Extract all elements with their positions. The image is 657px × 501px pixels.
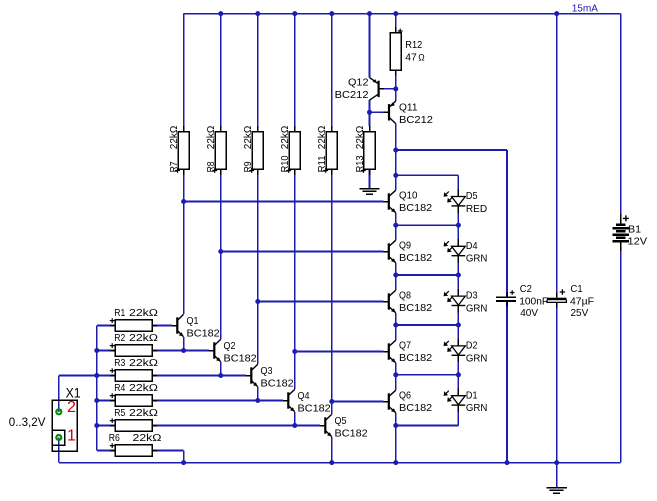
wire LED column seg 0 <box>457 175 459 189</box>
svg-text:D4: D4 <box>466 240 478 252</box>
wire Q11 collector to C2 <box>396 149 507 151</box>
wire LED row 3 <box>396 324 459 326</box>
svg-text:GRN: GRN <box>466 402 488 414</box>
junction input bus R4 <box>94 398 99 403</box>
transistor Q6 <box>384 390 433 415</box>
resistor R2 <box>110 332 158 356</box>
resistor R3 <box>110 357 158 381</box>
wire column R8 / Q2 collector <box>220 14 222 340</box>
wire battery column right <box>620 14 622 214</box>
junction Q11 base node <box>367 110 372 115</box>
LED D1 <box>444 388 488 414</box>
wire bus to R2 <box>97 350 115 352</box>
svg-text:D1: D1 <box>466 389 478 401</box>
svg-text:Q8: Q8 <box>399 290 411 302</box>
wire C1 column upper <box>556 14 558 298</box>
svg-text:Q11: Q11 <box>399 101 418 113</box>
resistor R7 <box>168 126 189 175</box>
svg-text:R6: R6 <box>109 432 120 444</box>
wire chain Q10 emitter to Q9 collector <box>395 213 397 240</box>
svg-text:BC182: BC182 <box>399 302 432 314</box>
junction chain row 2 <box>393 273 398 278</box>
wire Q11 base <box>370 111 384 113</box>
svg-text:Q5: Q5 <box>335 415 347 427</box>
junction bottom bus Q6 emitter <box>393 460 398 465</box>
svg-text:R8: R8 <box>205 161 217 172</box>
svg-text:1: 1 <box>67 427 76 444</box>
LED D3 <box>444 289 488 315</box>
svg-text:Q6: Q6 <box>399 390 411 402</box>
svg-text:Q2: Q2 <box>224 340 236 352</box>
junction input bus R2 <box>94 348 99 353</box>
wire chain Q7 emitter to Q6 collector <box>395 363 397 390</box>
wire bus to R1 <box>97 325 115 327</box>
junction top bus col 5 <box>329 11 334 16</box>
junction top bus R12 <box>393 11 398 16</box>
svg-text:22kΩ: 22kΩ <box>279 126 291 150</box>
wire LED row 5 <box>396 425 459 427</box>
transistor Q11 <box>384 101 433 126</box>
junction top bus col 3 <box>255 11 260 16</box>
transistor Q12 <box>335 77 384 101</box>
svg-text:Q10: Q10 <box>399 190 418 202</box>
svg-text:R11: R11 <box>316 155 328 172</box>
junction Q7 base takeoff <box>292 349 297 354</box>
wire LED row 0 <box>396 174 459 176</box>
junction LED column row 4 <box>456 372 461 377</box>
wire Q3 emitter <box>257 387 259 401</box>
transistor Q7 <box>384 340 433 365</box>
transistor Q4 <box>283 389 331 414</box>
svg-text:B1: B1 <box>628 223 641 235</box>
svg-text:BC182: BC182 <box>399 252 432 264</box>
wire Q6 base <box>332 401 384 403</box>
wire bus to R3 <box>97 375 115 377</box>
wire LED row 4 <box>396 374 459 376</box>
wire ground stem bottom <box>556 463 558 488</box>
junction bottom bus R6 <box>181 460 186 465</box>
svg-text:Q9: Q9 <box>399 240 411 252</box>
junction top bus col 4 <box>292 11 297 16</box>
wire top supply bus <box>184 13 621 15</box>
transistor Q5 <box>320 414 368 439</box>
svg-text:GRN: GRN <box>466 352 488 364</box>
junction chain row 5 <box>393 423 398 428</box>
svg-text:Q1: Q1 <box>187 315 199 327</box>
junction Q9 base takeoff <box>218 249 223 254</box>
svg-text:BC182: BC182 <box>399 352 432 364</box>
svg-text:BC182: BC182 <box>399 202 432 214</box>
wire R3 to Q3 base <box>152 375 246 377</box>
junction input bus R3 <box>94 373 99 378</box>
wire chain Q9 emitter to Q8 collector <box>395 263 397 290</box>
svg-text:22kΩ: 22kΩ <box>129 357 158 369</box>
junction Q11 collector to C2 <box>393 148 398 153</box>
wire LED row 2 <box>396 274 459 276</box>
transistor Q1 <box>172 314 220 339</box>
svg-text:R13: R13 <box>354 155 366 172</box>
wire column R11 / Q5 collector <box>331 14 333 415</box>
junction Q4 emitter <box>292 423 297 428</box>
svg-text:BC212: BC212 <box>335 89 369 101</box>
LED D4 <box>444 239 488 265</box>
wire X1 pin1 to ground bus <box>58 438 60 463</box>
wire bus to R5 <box>97 425 115 427</box>
svg-text:22kΩ: 22kΩ <box>129 307 158 319</box>
svg-text:BC182: BC182 <box>335 428 368 440</box>
junction top bus Q12 emitter <box>367 11 372 16</box>
svg-text:22kΩ: 22kΩ <box>129 407 158 419</box>
resistor R4 <box>110 382 158 406</box>
capacitor C1 <box>547 283 594 319</box>
wire C2 column upper <box>506 150 508 297</box>
svg-text:22kΩ: 22kΩ <box>129 382 158 394</box>
junction LED column row 3 <box>456 323 461 328</box>
wire bottom ground bus <box>59 462 621 464</box>
svg-text:BC182: BC182 <box>224 353 257 365</box>
junction top bus col 2 <box>218 11 223 16</box>
svg-text:R2: R2 <box>114 332 125 344</box>
svg-text:15mA: 15mA <box>572 3 598 15</box>
svg-text:22kΩ: 22kΩ <box>129 332 158 344</box>
wire Q6 emitter to ground bus <box>395 413 397 463</box>
junction Q2 emitter <box>218 373 223 378</box>
wire chain Q8 emitter to Q7 collector <box>395 313 397 340</box>
svg-text:BC182: BC182 <box>298 403 331 415</box>
transistor Q8 <box>384 290 433 315</box>
wire column R9 / Q3 collector <box>257 14 259 365</box>
svg-text:GRN: GRN <box>466 253 488 265</box>
junction LED column row 2 <box>456 273 461 278</box>
wire Q2 emitter <box>220 362 222 376</box>
svg-text:GRN: GRN <box>466 303 488 315</box>
wire C2 column lower <box>506 301 508 463</box>
wire Q4 emitter <box>294 412 296 426</box>
svg-text:40V: 40V <box>520 307 538 319</box>
ground below R13 <box>359 189 379 195</box>
junction Q3 emitter <box>255 398 260 403</box>
LED D2 <box>444 339 488 365</box>
resistor R10 <box>279 126 300 175</box>
svg-text:C2: C2 <box>520 283 532 295</box>
wire C1 column lower <box>556 302 558 462</box>
connector X1 <box>52 384 80 451</box>
svg-text:Ω: Ω <box>418 53 425 63</box>
wire Q8 base <box>258 301 384 303</box>
wire LED column seg 4 <box>457 375 459 389</box>
svg-text:R9: R9 <box>242 161 254 172</box>
junction bottom bus Q5 emitter <box>329 460 334 465</box>
svg-text:Q7: Q7 <box>399 340 411 352</box>
svg-text:22kΩ: 22kΩ <box>133 432 162 444</box>
svg-text:C1: C1 <box>571 283 583 295</box>
svg-text:47: 47 <box>405 52 417 64</box>
wire Q12 base to R12 bottom <box>384 88 396 90</box>
junction chain row 0 <box>393 173 398 178</box>
transistor Q2 <box>209 339 257 364</box>
wire LED column seg 2 <box>457 275 459 289</box>
resistor R5 <box>110 407 158 431</box>
wire LED column seg 1 <box>457 225 459 239</box>
wire Q5 emitter <box>331 437 333 463</box>
resistor R1 <box>110 307 158 331</box>
svg-text:47µF: 47µF <box>570 296 594 308</box>
svg-text:R12: R12 <box>405 39 422 51</box>
wire Q10 base <box>184 201 384 203</box>
wire R4 to Q4 base <box>152 400 283 402</box>
junction chain row 3 <box>393 323 398 328</box>
junction Q10 base takeoff <box>181 199 186 204</box>
resistor R11 <box>316 126 337 175</box>
wire R13 to ground <box>369 169 371 188</box>
wire Q1 emitter <box>183 337 185 351</box>
svg-text:12V: 12V <box>628 235 648 247</box>
resistor R6 <box>109 432 162 456</box>
wire R5 to Q5 base <box>152 425 320 427</box>
svg-text:0..3,2V: 0..3,2V <box>9 415 46 429</box>
svg-text:Q12: Q12 <box>348 77 369 89</box>
pin X1.1 <box>56 435 61 440</box>
junction top bus C1 column <box>554 11 559 16</box>
junction Q1 emitter <box>181 348 186 353</box>
svg-text:R1: R1 <box>114 307 125 319</box>
junction Q6 base takeoff <box>329 399 334 404</box>
svg-text:22kΩ: 22kΩ <box>354 126 366 150</box>
svg-text:Q3: Q3 <box>261 365 273 377</box>
svg-text:Q4: Q4 <box>298 390 310 402</box>
svg-text:D2: D2 <box>466 340 478 352</box>
transistor Q3 <box>246 364 294 389</box>
wire R12 column <box>395 14 397 33</box>
wire Q7 base <box>295 351 384 353</box>
wire LED column seg 3 <box>457 325 459 339</box>
svg-text:RED: RED <box>466 203 488 215</box>
svg-text:R7: R7 <box>168 161 180 172</box>
junction chain row 4 <box>393 372 398 377</box>
wire bus to R6 <box>97 450 115 452</box>
LED D5 <box>444 189 488 215</box>
svg-text:22kΩ: 22kΩ <box>168 126 180 150</box>
wire R12 to Q11 emitter node <box>395 70 397 101</box>
resistor R8 <box>205 126 226 175</box>
transistor Q10 <box>384 190 433 215</box>
junction bottom bus ground <box>554 460 559 465</box>
svg-text:R5: R5 <box>114 407 125 419</box>
wire Q12 emitter column <box>369 14 371 78</box>
junction bottom bus C2 <box>505 460 510 465</box>
svg-text:22kΩ: 22kΩ <box>205 126 217 150</box>
junction input bus R5 <box>94 423 99 428</box>
wire Q12 collector / Q11 base node <box>369 100 371 126</box>
svg-text:25V: 25V <box>571 307 589 319</box>
resistor R13 <box>354 126 375 175</box>
junction R12 bottom node <box>393 86 398 91</box>
svg-text:BC182: BC182 <box>261 378 294 390</box>
svg-text:BC182: BC182 <box>399 402 432 414</box>
wire bus to R4 <box>97 400 115 402</box>
wire R2 to Q2 base <box>152 350 209 352</box>
wire Q9 base <box>221 251 384 253</box>
wire R6 to ground bus <box>152 450 184 452</box>
junction Q8 base takeoff <box>255 299 260 304</box>
resistor R12 <box>390 27 425 76</box>
svg-text:R10: R10 <box>279 155 291 172</box>
resistor R9 <box>242 126 263 175</box>
wire column R10 / Q4 collector <box>294 14 296 390</box>
junction chain row 1 <box>393 223 398 228</box>
svg-text:D5: D5 <box>466 190 478 202</box>
transistor Q9 <box>384 240 433 265</box>
svg-text:22kΩ: 22kΩ <box>316 126 328 150</box>
wire X1 pin2 to resistor bus <box>58 376 60 412</box>
wire Q11 collector down <box>395 124 397 191</box>
wire LED row 1 <box>396 224 459 226</box>
svg-text:BC182: BC182 <box>187 328 220 340</box>
svg-text:R3: R3 <box>114 357 125 369</box>
svg-text:R4: R4 <box>114 382 125 394</box>
svg-text:2: 2 <box>67 399 76 416</box>
battery B1 <box>613 214 648 251</box>
svg-text:BC212: BC212 <box>399 114 433 126</box>
wire column R7 / Q1 collector <box>183 14 185 315</box>
ground bottom <box>547 488 567 494</box>
svg-text:22kΩ: 22kΩ <box>242 126 254 150</box>
pin X1.2 <box>56 409 61 414</box>
capacitor C2 <box>496 283 548 319</box>
junction LED column row 1 <box>456 223 461 228</box>
svg-text:100nF: 100nF <box>519 296 548 308</box>
wire R1 to Q1 base <box>152 325 172 327</box>
wire left input bus <box>96 326 98 451</box>
svg-text:D3: D3 <box>466 290 478 302</box>
